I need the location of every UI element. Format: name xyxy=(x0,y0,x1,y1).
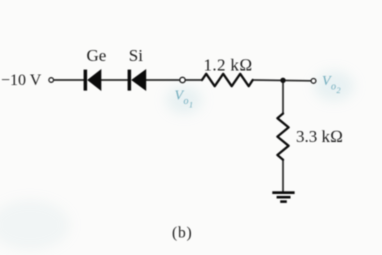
svg-text:o: o xyxy=(184,96,189,107)
svg-text:(b): (b) xyxy=(172,225,192,242)
svg-text:1: 1 xyxy=(189,101,193,110)
svg-text:o: o xyxy=(331,82,336,93)
svg-text:1.2 kΩ: 1.2 kΩ xyxy=(204,56,253,75)
svg-text:Ge: Ge xyxy=(87,46,107,65)
svg-text:−10 V: −10 V xyxy=(1,72,42,89)
svg-text:Si: Si xyxy=(129,46,143,65)
svg-text:3.3 kΩ: 3.3 kΩ xyxy=(296,127,343,146)
svg-text:2: 2 xyxy=(337,86,341,95)
